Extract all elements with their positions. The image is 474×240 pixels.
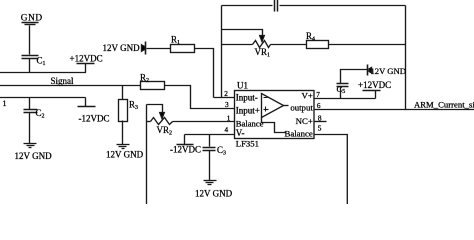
svg-text:U1: U1	[237, 80, 248, 90]
svg-text:-12VDC: -12VDC	[170, 145, 201, 155]
wire output line	[314, 109, 474, 111]
wire Signal to R3	[122, 86, 124, 100]
svg-text:4: 4	[225, 125, 229, 134]
op-amp pin label Input+	[236, 106, 260, 116]
svg-text:1: 1	[3, 99, 7, 108]
wire V+ line	[314, 98, 376, 100]
resistor R4	[307, 41, 329, 49]
ground 12V GND (under R3)	[117, 144, 130, 146]
svg-text:12V GND: 12V GND	[103, 43, 141, 53]
svg-text:output: output	[290, 102, 313, 112]
power +12VDC tap (left)	[70, 54, 103, 64]
wire R1 to pin2	[195, 49, 214, 98]
svg-text:C1: C1	[37, 56, 46, 68]
power +12VDC tap (V+)	[358, 80, 391, 90]
wire Signal line	[0, 85, 141, 87]
wire output feedback vertical	[405, 6, 407, 110]
resistor R2	[141, 82, 165, 90]
op-amp pin label Balance (right)	[284, 129, 312, 139]
wire pin5 drop	[314, 135, 347, 205]
wire GND to C1	[29, 26, 31, 55]
ground 12V GND (under C2)	[24, 143, 37, 145]
capacitor C5	[337, 83, 349, 85]
svg-text:7: 7	[316, 90, 320, 99]
op-amp internal + lead wire	[262, 118, 286, 133]
capacitor C1	[22, 55, 39, 57]
svg-text:VR1: VR1	[255, 47, 271, 59]
op-amp pin label V-	[236, 128, 245, 138]
op-amp apex to output wire	[284, 105, 289, 107]
wire pin3 number	[225, 100, 229, 109]
svg-text:NC+: NC+	[296, 116, 313, 126]
wire R2 to pin3	[165, 86, 235, 109]
wire pin4 number	[225, 125, 229, 134]
svg-text:8: 8	[318, 114, 322, 123]
svg-text:Balance: Balance	[284, 129, 312, 139]
potentiometer VR1	[253, 41, 271, 48]
op-amp pin label V+	[301, 90, 312, 100]
svg-text:Input+: Input+	[236, 106, 260, 116]
svg-text:5: 5	[318, 123, 322, 132]
ground 12V GND (under C3)	[204, 180, 217, 182]
wire VR2 left vertical	[146, 105, 148, 205]
svg-text:12V GND: 12V GND	[371, 66, 406, 76]
svg-text:+12VDC: +12VDC	[358, 80, 391, 90]
svg-text:R4: R4	[306, 31, 315, 43]
op-amp pin label Input-	[236, 92, 258, 102]
node Signal	[51, 76, 75, 86]
svg-text:2: 2	[224, 89, 228, 98]
wire +12V rail (line A)	[0, 72, 86, 74]
power 12V GND bar (right of C5)	[367, 65, 369, 76]
svg-text:-12VDC: -12VDC	[79, 113, 110, 123]
wire C2 to ground	[29, 113, 31, 144]
svg-text:3: 3	[225, 100, 229, 109]
wire VR1 wiper	[222, 30, 263, 37]
wire VR2 wiper	[147, 105, 163, 114]
wire feedback mid branch	[222, 44, 253, 46]
potentiometer VR2 on balance line	[147, 121, 151, 123]
svg-text:V-: V-	[236, 128, 245, 138]
wire bar to R1	[147, 48, 171, 50]
node ARM_Current_sig	[414, 99, 474, 109]
wire pin6 number	[317, 101, 321, 110]
capacitor C4 (feedback)	[274, 0, 276, 12]
wire lower rail (line B)	[0, 97, 86, 99]
power -12VDC tap (left)	[85, 98, 87, 107]
wire feedback top	[222, 5, 273, 7]
wire C3 to ground	[209, 151, 211, 181]
op-amp U1 box	[235, 91, 315, 139]
svg-text:R3: R3	[129, 100, 138, 112]
wire pin2 stub	[214, 97, 235, 99]
ground GND (top-left)	[21, 14, 43, 24]
op-amp pin label NC+	[296, 116, 313, 126]
wire pin4 line	[185, 134, 235, 136]
wire C5 to 12V GND bar	[341, 70, 368, 84]
svg-text:R2: R2	[140, 73, 149, 85]
resistor R3	[119, 100, 128, 122]
svg-text:12V GND: 12V GND	[15, 151, 53, 161]
wire inverting-node vertical	[221, 6, 223, 98]
capacitor C3	[209, 135, 211, 147]
svg-text:12V GND: 12V GND	[195, 189, 233, 199]
node 1 label	[3, 99, 7, 108]
wire pin1 number	[227, 113, 231, 122]
capacitor C2	[29, 98, 31, 110]
svg-text:Input-: Input-	[236, 92, 258, 102]
svg-text:C3: C3	[217, 145, 226, 157]
svg-text:VR2: VR2	[157, 125, 173, 137]
svg-text:12V GND: 12V GND	[106, 150, 144, 160]
svg-text:V+: V+	[301, 90, 312, 100]
power -12VDC tap (pin4)	[184, 135, 186, 145]
wire R3 to ground	[122, 121, 124, 145]
svg-text:ARM_Current_sign: ARM_Current_sign	[414, 99, 474, 109]
resistor R1	[171, 45, 195, 53]
op-amp pin label Balance (left)	[236, 119, 264, 129]
power 12V GND bar (left of R1)	[103, 43, 141, 53]
wire pin8 stub (NC)	[314, 121, 327, 123]
svg-text:R1: R1	[171, 35, 180, 47]
op-amp triangle	[262, 94, 284, 118]
svg-text:Signal: Signal	[51, 76, 75, 86]
wire C1 to +12V rail	[29, 59, 31, 73]
op-amp pin label output	[290, 102, 313, 112]
svg-text:C2: C2	[36, 108, 45, 120]
svg-text:+12VDC: +12VDC	[70, 54, 103, 64]
svg-text:LF351: LF351	[236, 139, 259, 149]
